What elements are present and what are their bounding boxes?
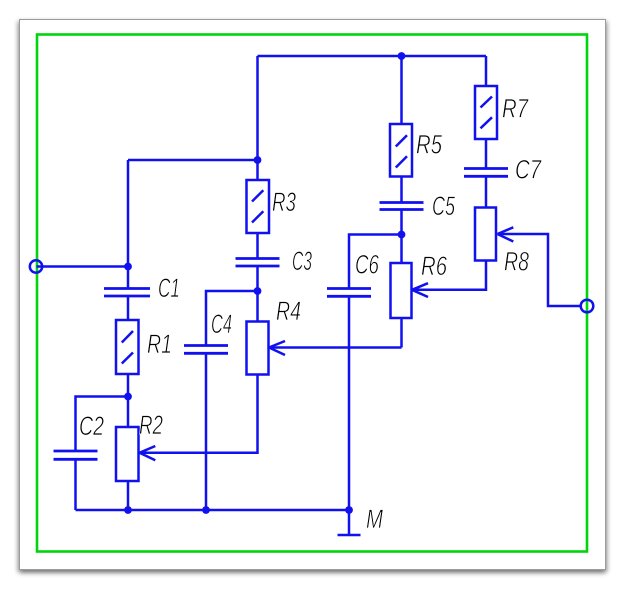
svg-text:C7: C7 [515,155,542,185]
svg-text:C3: C3 [292,246,312,276]
svg-text:M: M [366,504,383,534]
svg-text:R5: R5 [416,130,443,160]
svg-text:C5: C5 [432,191,456,221]
svg-text:R1: R1 [147,329,172,359]
svg-text:C2: C2 [79,411,104,441]
svg-text:R4: R4 [276,296,301,326]
svg-text:C1: C1 [158,273,180,303]
svg-text:C6: C6 [355,250,380,280]
svg-text:R2: R2 [139,410,163,440]
svg-text:R3: R3 [272,187,296,217]
svg-text:C4: C4 [211,309,232,339]
svg-text:R7: R7 [502,94,529,124]
svg-text:R8: R8 [504,247,529,277]
svg-text:R6: R6 [421,251,448,281]
